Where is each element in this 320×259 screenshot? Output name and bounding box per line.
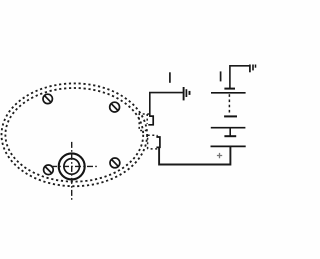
- battery BT1 cell1 long plate: [211, 92, 246, 94]
- wire from battery bottom down, left and up to T2: [159, 146, 230, 164]
- terminal T1 solid contact bracket: [148, 116, 153, 125]
- ground GND1 bar 1: [183, 87, 185, 100]
- terminal T2 solid contact bracket: [156, 137, 160, 147]
- motor housing M1 inner dotted outline: [5, 88, 143, 182]
- hub horizontal centerline: [51, 165, 99, 167]
- current tick I1: [169, 72, 171, 83]
- battery BT1 plus label: [217, 153, 222, 158]
- hub vertical centerline: [71, 142, 73, 200]
- battery BT1 omitted-cells dashed axis: [228, 94, 230, 112]
- hub bearing outer circle: [59, 153, 85, 179]
- wire from battery top up and right to ground GND2: [230, 66, 249, 89]
- hub bearing inner circle: [64, 159, 80, 175]
- screw S2 (top-right): [110, 102, 120, 112]
- current tick I2: [220, 71, 222, 81]
- battery BT1 cell2 long plate: [211, 127, 246, 129]
- motor housing M1 outer dotted outline: [2, 83, 148, 186]
- battery BT1 inter-cell stub: [229, 128, 231, 137]
- battery BT1 cell2 short plate: [224, 115, 237, 117]
- ground GND1 bar 3: [189, 91, 191, 95]
- ground GND2 bar 1: [249, 65, 251, 73]
- battery BT1 cell3 short plate: [224, 135, 236, 137]
- ground GND2 bar 2: [252, 65, 254, 71]
- terminal block T1 dashed outline: [139, 114, 149, 131]
- ground GND1 bar 2: [185, 89, 187, 97]
- battery BT1 cell1 short plate: [224, 88, 235, 90]
- screw S1 (top-left): [43, 94, 52, 103]
- screw S3 (bottom-left): [44, 165, 54, 175]
- terminal block T2 dashed outline: [148, 135, 158, 149]
- ground GND2 bar 3: [255, 65, 257, 68]
- screw S4 (bottom-right): [110, 158, 120, 168]
- battery BT1 cell3 long plate: [211, 145, 246, 147]
- wire from T1 up and right to ground GND1: [150, 93, 183, 116]
